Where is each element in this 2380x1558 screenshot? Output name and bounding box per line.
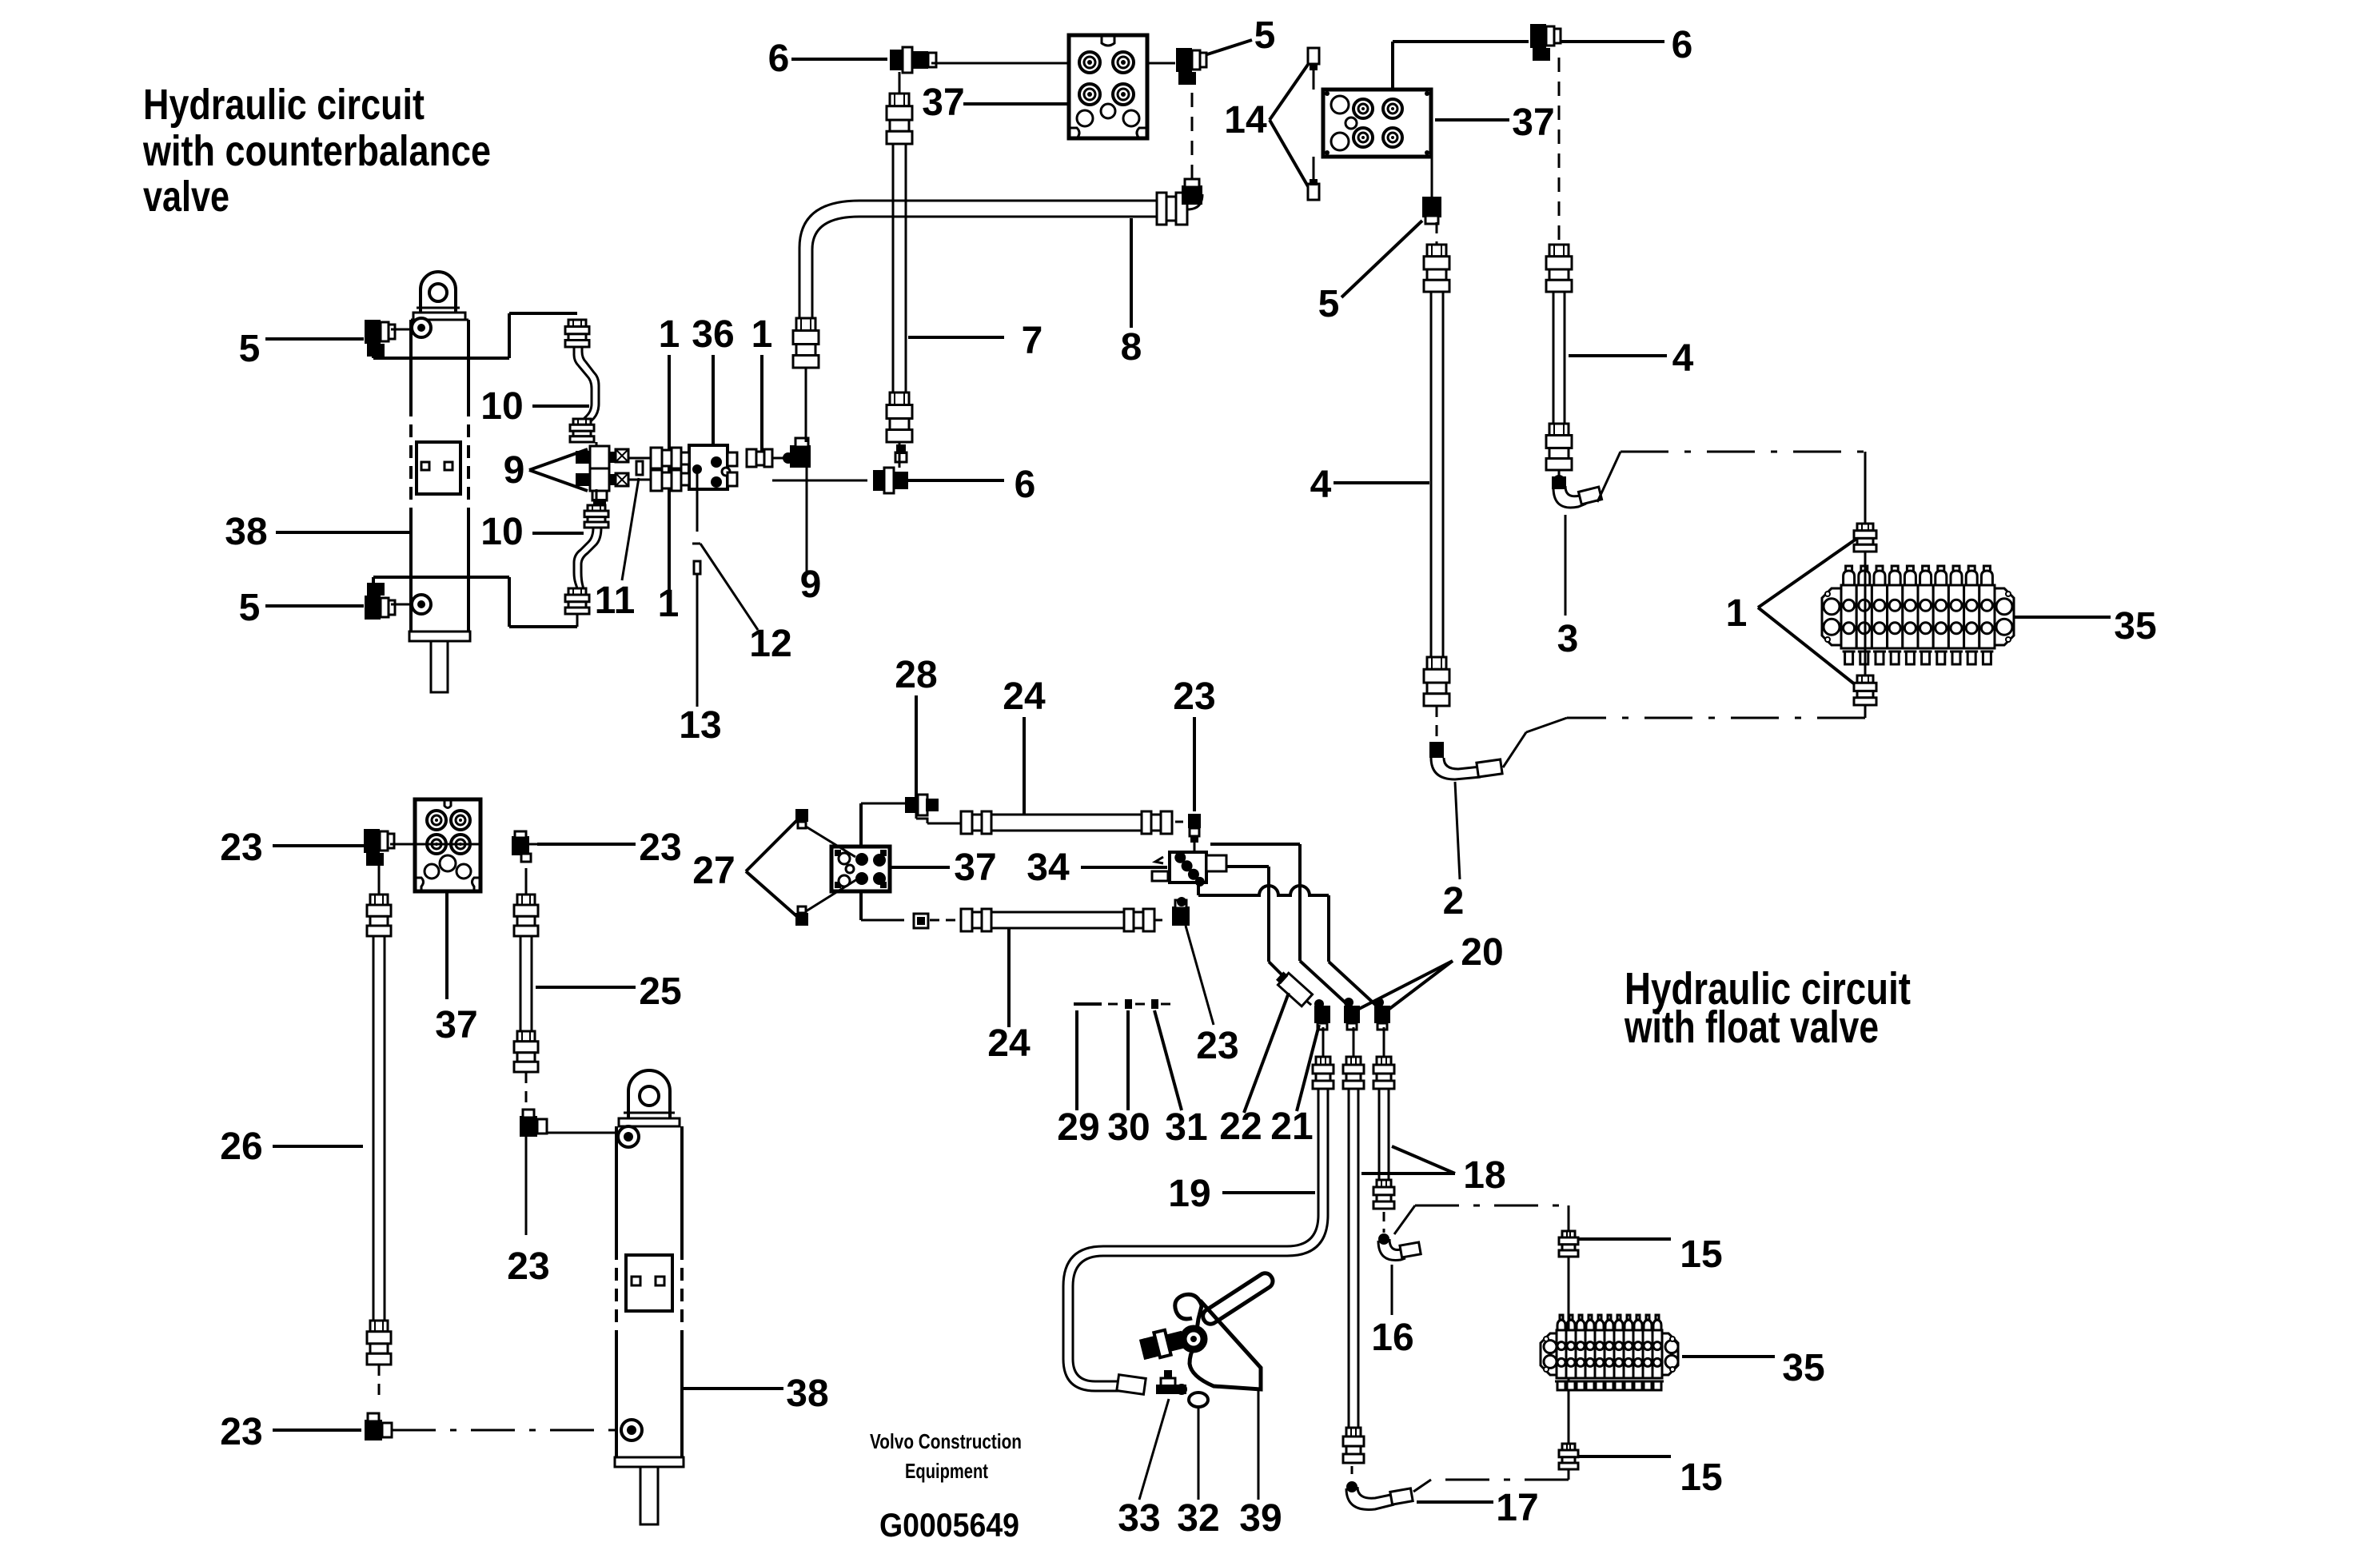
svg-text:G0005649: G0005649 (879, 1506, 1019, 1544)
svg-text:36: 36 (692, 313, 734, 356)
svg-text:24: 24 (987, 1022, 1031, 1065)
svg-text:1: 1 (659, 313, 680, 356)
svg-text:with float valve: with float valve (1624, 1002, 1879, 1053)
svg-text:9: 9 (800, 564, 822, 606)
svg-text:23: 23 (220, 1411, 262, 1453)
svg-text:10: 10 (480, 511, 523, 553)
svg-text:12: 12 (749, 623, 791, 665)
svg-text:37: 37 (954, 847, 996, 889)
svg-text:38: 38 (225, 511, 267, 553)
svg-text:23: 23 (220, 827, 262, 869)
svg-text:28: 28 (895, 654, 937, 696)
svg-text:20: 20 (1461, 931, 1503, 974)
svg-text:9: 9 (504, 449, 525, 492)
svg-text:2: 2 (1443, 880, 1465, 922)
svg-text:38: 38 (786, 1373, 828, 1415)
svg-text:31: 31 (1165, 1106, 1207, 1149)
svg-text:5: 5 (1254, 14, 1276, 57)
svg-text:5: 5 (1318, 283, 1340, 325)
svg-text:5: 5 (239, 587, 261, 629)
svg-text:11: 11 (595, 580, 636, 622)
svg-text:6: 6 (1015, 464, 1036, 506)
svg-text:24: 24 (1003, 675, 1046, 718)
svg-text:14: 14 (1224, 99, 1267, 141)
svg-text:7: 7 (1022, 320, 1043, 362)
svg-text:15: 15 (1680, 1233, 1722, 1276)
svg-text:23: 23 (507, 1245, 549, 1288)
svg-text:13: 13 (679, 704, 721, 747)
svg-text:8: 8 (1121, 326, 1142, 369)
svg-text:30: 30 (1107, 1106, 1150, 1149)
svg-text:1: 1 (658, 583, 680, 625)
svg-text:3: 3 (1557, 618, 1579, 660)
svg-text:valve: valve (143, 173, 229, 221)
svg-text:1: 1 (751, 313, 773, 356)
svg-text:10: 10 (480, 385, 523, 428)
svg-text:6: 6 (1672, 24, 1693, 66)
svg-text:27: 27 (692, 850, 735, 892)
svg-text:37: 37 (1512, 102, 1554, 144)
svg-text:19: 19 (1168, 1173, 1210, 1215)
svg-text:22: 22 (1219, 1106, 1262, 1148)
svg-text:37: 37 (435, 1004, 477, 1046)
svg-text:35: 35 (2114, 605, 2156, 648)
svg-text:16: 16 (1371, 1317, 1413, 1359)
svg-text:32: 32 (1177, 1497, 1219, 1540)
svg-text:34: 34 (1027, 847, 1070, 889)
svg-text:23: 23 (1173, 675, 1215, 718)
svg-text:23: 23 (639, 827, 681, 869)
svg-text:Volvo Construction: Volvo Construction (870, 1429, 1022, 1453)
svg-text:35: 35 (1782, 1347, 1824, 1389)
svg-text:39: 39 (1239, 1497, 1282, 1540)
svg-text:21: 21 (1270, 1106, 1313, 1148)
svg-text:Equipment: Equipment (905, 1459, 988, 1483)
svg-text:1: 1 (1726, 592, 1748, 635)
svg-text:18: 18 (1463, 1154, 1505, 1197)
svg-text:15: 15 (1680, 1456, 1722, 1499)
svg-text:26: 26 (220, 1126, 262, 1168)
svg-text:17: 17 (1496, 1487, 1538, 1529)
svg-text:4: 4 (1310, 464, 1332, 506)
svg-text:Hydraulic circuit: Hydraulic circuit (143, 81, 425, 129)
svg-text:6: 6 (768, 38, 790, 80)
svg-text:23: 23 (1196, 1025, 1238, 1067)
svg-text:37: 37 (922, 82, 964, 124)
svg-text:33: 33 (1118, 1497, 1160, 1540)
svg-text:29: 29 (1057, 1106, 1099, 1149)
svg-text:4: 4 (1672, 337, 1694, 380)
svg-text:25: 25 (639, 970, 681, 1013)
svg-text:with counterbalance: with counterbalance (142, 127, 491, 175)
svg-text:5: 5 (239, 328, 261, 370)
